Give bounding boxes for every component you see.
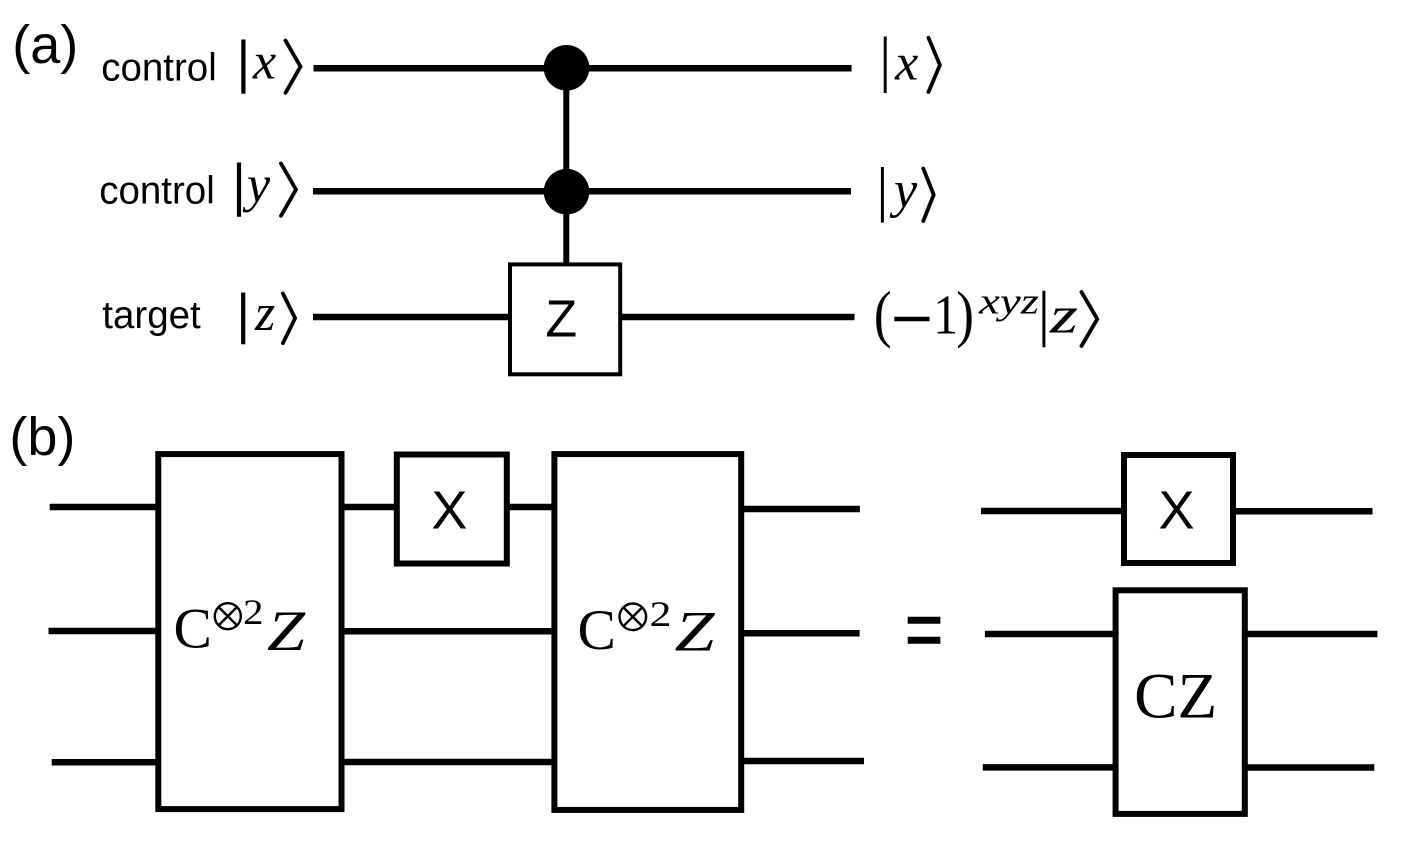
svg-text:C: C xyxy=(174,598,212,661)
svg-text:(b): (b) xyxy=(9,407,75,467)
svg-text:y: y xyxy=(242,157,271,214)
svg-text:xyz: xyz xyxy=(978,281,1039,322)
svg-text:z: z xyxy=(254,285,275,342)
svg-text:Z: Z xyxy=(267,600,306,663)
svg-text:(a): (a) xyxy=(12,15,78,75)
svg-text:target: target xyxy=(102,294,201,337)
svg-text:Z: Z xyxy=(545,290,577,348)
svg-text:2: 2 xyxy=(243,592,264,632)
svg-text:C: C xyxy=(578,599,616,662)
svg-text:y: y xyxy=(889,162,918,219)
svg-text:X: X xyxy=(1158,480,1194,540)
svg-text:(: ( xyxy=(874,278,892,349)
svg-text:control: control xyxy=(101,47,217,90)
svg-text:x: x xyxy=(252,34,276,91)
svg-text:1: 1 xyxy=(933,285,958,347)
svg-text:z: z xyxy=(1049,287,1078,344)
svg-text:control: control xyxy=(99,170,215,213)
svg-text:X: X xyxy=(431,480,467,540)
svg-text:2: 2 xyxy=(650,594,672,634)
svg-text:): ) xyxy=(956,278,974,349)
svg-text:Z: Z xyxy=(675,601,716,664)
svg-text:CZ: CZ xyxy=(1134,661,1217,733)
svg-text:x: x xyxy=(894,34,918,91)
